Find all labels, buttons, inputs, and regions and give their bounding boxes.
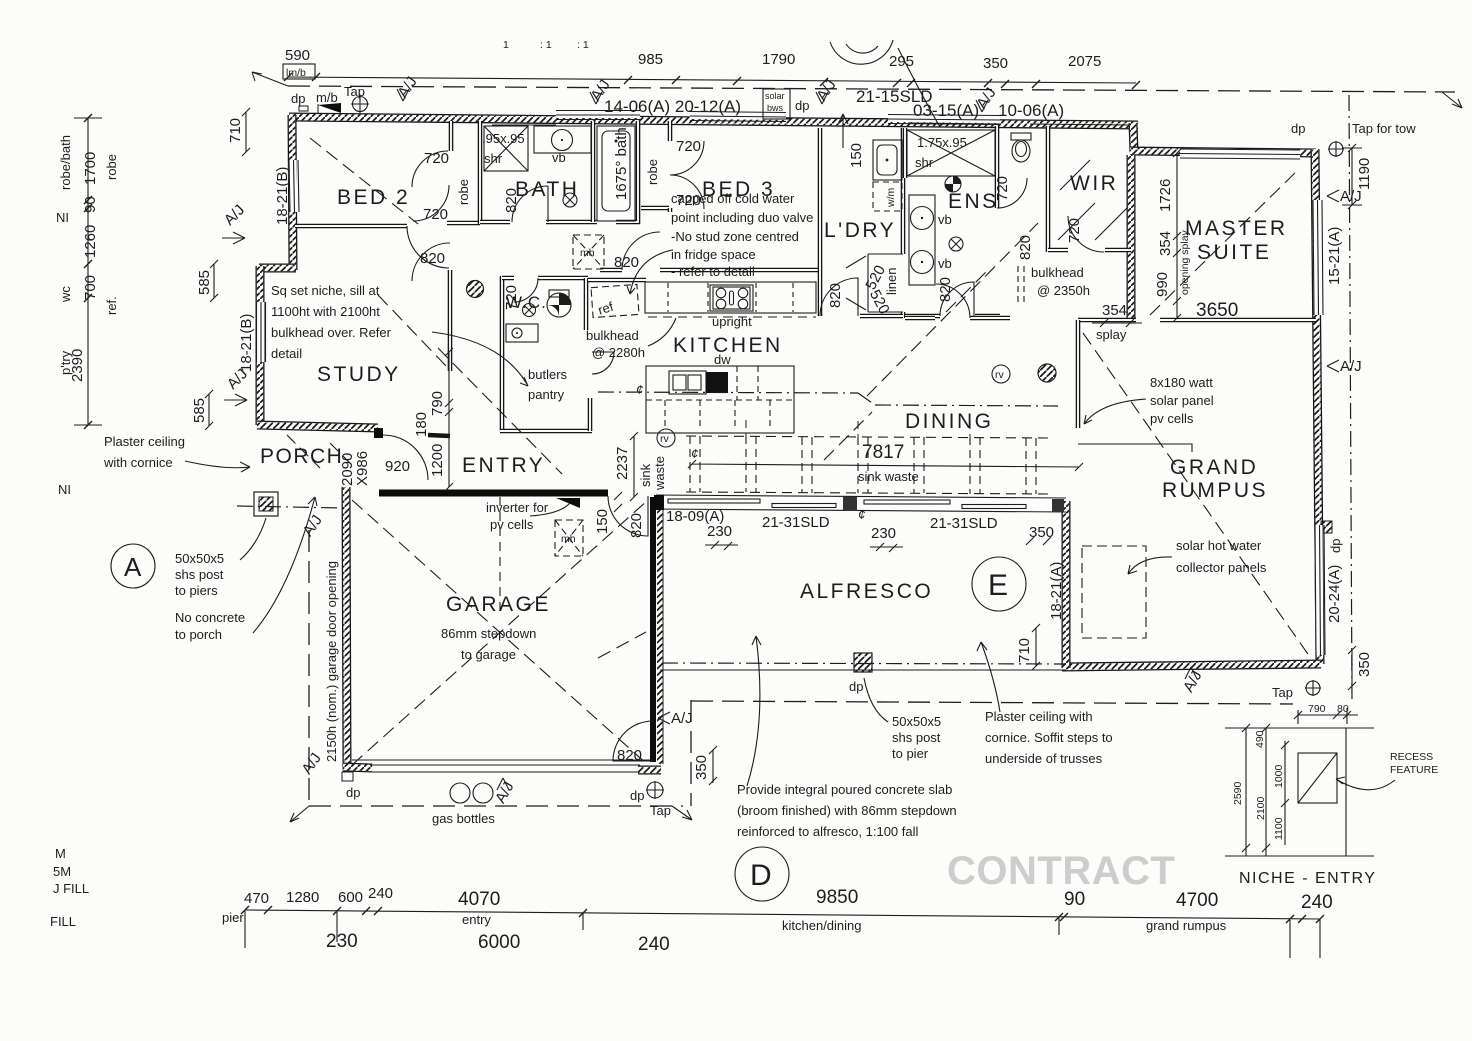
door arc: ens [940, 282, 974, 316]
svg-text:M: M [55, 846, 66, 861]
annotation: 2150h garage door opening rotated [324, 561, 339, 762]
svg-text:sink waste: sink waste [858, 469, 919, 484]
svg-text:A/J: A/J [1340, 188, 1362, 205]
svg-text:10-06(A): 10-06(A) [998, 101, 1064, 120]
dim 710 alfresco east rotated [1016, 624, 1040, 670]
w/m label rotated [885, 188, 897, 209]
A/J marker alfresco left [658, 710, 693, 727]
site boundary: left dashed vertical [308, 530, 310, 806]
mh box hall [573, 235, 604, 269]
svg-text:mh: mh [580, 247, 595, 259]
garage east wall black [653, 497, 663, 764]
A/J label alfresco bottom rotated [1180, 667, 1206, 695]
svg-text:to pier: to pier [892, 746, 929, 761]
door dim 720 wir rotated [1066, 218, 1083, 243]
niche dim 490 rotated [1254, 730, 1266, 748]
rumpus nib wall [1078, 444, 1192, 452]
svg-text:820: 820 [420, 250, 445, 267]
svg-text:A/J: A/J [221, 201, 248, 228]
interior wall: WC east [584, 278, 589, 330]
svg-text:J FILL: J FILL [53, 881, 89, 896]
svg-text:3650: 3650 [1196, 300, 1238, 321]
hall floor waste hatched [467, 281, 484, 298]
shower bath: box with X [484, 126, 528, 171]
svg-text:ΝΙ: ΝΙ [58, 482, 71, 497]
svg-text:splay: splay [1096, 327, 1127, 342]
dim 354 rotated [1157, 231, 1174, 256]
dim 985 [638, 51, 663, 68]
annotation: upright [712, 314, 752, 329]
svg-text:dp: dp [1328, 539, 1343, 553]
room label STUDY [317, 363, 401, 386]
label robe/bath rotated [58, 135, 73, 190]
svg-text:dp: dp [1291, 121, 1305, 136]
dim 350 bottom right rotated [1348, 646, 1373, 690]
door arc: linen splay doors [846, 256, 866, 310]
door dim 820 laundry rotated [827, 283, 844, 308]
A/J marker left lower [224, 365, 251, 406]
solar bws box [763, 89, 790, 119]
leader: capped off to fridge [627, 250, 672, 294]
dim 295 [889, 53, 914, 70]
svg-text:bulkhead over. Refer: bulkhead over. Refer [271, 325, 392, 340]
svg-text:585: 585 [196, 270, 213, 295]
svg-text:- refer to detail: - refer to detail [671, 264, 755, 279]
svg-text:920: 920 [385, 458, 410, 475]
exterior wall: study/porch south [257, 425, 378, 428]
svg-text:sink: sink [638, 463, 653, 487]
exterior wall: study step [259, 264, 296, 273]
svg-text:upright: upright [712, 314, 752, 329]
svg-text:18-21(B): 18-21(B) [238, 314, 255, 372]
dim 354 splay master sw [1092, 302, 1142, 342]
niche dim ticks [1242, 724, 1289, 852]
door dim 820 bath rotated [503, 188, 520, 213]
dim 3650 [1196, 300, 1238, 321]
vb label bath [552, 150, 566, 165]
svg-text:to garage: to garage [461, 647, 516, 662]
svg-text:-No stud zone centred: -No stud zone centred [671, 229, 799, 244]
pergola dashed grid horizontals [686, 436, 1048, 494]
top faint pencil ticks [503, 39, 589, 51]
dp box at garage sw [342, 772, 353, 781]
svg-text:720: 720 [676, 192, 701, 209]
room label ENTRY [462, 454, 545, 477]
interior wall: bed3 east / laundry west [818, 128, 823, 316]
svg-text:gas bottles: gas bottles [432, 811, 495, 826]
robe label bed2 rotated [456, 179, 471, 205]
svg-text:350: 350 [1356, 652, 1373, 677]
window: study west wall [257, 302, 266, 362]
svg-text:dp: dp [291, 91, 305, 106]
door arc: bed3 robe [670, 141, 704, 209]
bath floor waste [563, 193, 577, 207]
interior wall: pantry east / kitchen [588, 398, 593, 431]
room label GARAGE [446, 593, 551, 616]
dim 990 rotated [1154, 272, 1171, 297]
alfresco post (50x50 shs) [854, 653, 872, 672]
room label KITCHEN [673, 334, 783, 357]
svg-text:8x180 watt: 8x180 watt [1150, 375, 1213, 390]
svg-text:1700: 1700 [82, 152, 99, 185]
garage cross diagonal 2 [352, 500, 648, 765]
svg-text:990: 990 [1154, 272, 1171, 297]
door arc: master [936, 284, 970, 318]
leader: provide integral to alfresco [747, 636, 761, 786]
interior wall: WC north [502, 276, 588, 281]
svg-text:ENS: ENS [948, 190, 999, 213]
A/J master top right [1343, 130, 1355, 142]
kitchen island [646, 366, 794, 433]
garage door: thin double line in south wall [352, 760, 652, 772]
svg-text:pv cells: pv cells [1150, 411, 1194, 426]
annotation: butlers pantry [528, 367, 568, 402]
svg-text:RECESS: RECESS [1390, 751, 1433, 763]
kitchen hotplate [710, 285, 753, 311]
A/J right wall lower [1327, 358, 1362, 375]
svg-text:21-31SLD: 21-31SLD [930, 515, 998, 532]
svg-text:150: 150 [848, 143, 865, 168]
interior wall: bath east / bed3 west [591, 121, 596, 222]
label 18-21(A) alfresco rotated [1048, 562, 1065, 620]
svg-text:4700: 4700 [1176, 890, 1218, 911]
svg-text:dp: dp [849, 679, 863, 694]
left vertical dimension line [74, 114, 102, 429]
svg-text:2237: 2237 [614, 447, 631, 480]
hall floor waste hatched (master) [1038, 364, 1056, 382]
svg-text:dw: dw [714, 352, 731, 367]
garage note 86mm stepdown / to garage [441, 626, 536, 662]
diagonal dashes near garage se [598, 632, 646, 658]
boundary corner arrow bottom-left [290, 806, 309, 822]
dim 350 top [983, 55, 1008, 72]
dim 90 [1064, 889, 1085, 910]
svg-text:1280: 1280 [286, 889, 319, 906]
svg-text:2075: 2075 [1068, 53, 1101, 70]
svg-text:1000: 1000 [1273, 764, 1285, 788]
door arc: garage rear to alfresco [613, 721, 653, 761]
WC floor waste [523, 304, 536, 317]
svg-text:rv: rv [660, 433, 669, 445]
room label BATH [515, 178, 579, 201]
svg-text:.95x.95: .95x.95 [482, 131, 525, 146]
window: master east wall 15-21(A) [1313, 200, 1323, 315]
tap symbol garage se [646, 781, 664, 799]
svg-text:ENTRY: ENTRY [462, 454, 545, 477]
svg-text:X986: X986 [354, 451, 371, 486]
svg-text:9850: 9850 [816, 887, 858, 908]
window code 14-06(A) 20-12(A) [604, 97, 741, 116]
dim 6000 below [478, 932, 520, 953]
robe label bed3 rotated [645, 159, 660, 185]
top dp m/b labels [291, 84, 365, 106]
svg-text:to piers: to piers [175, 583, 218, 598]
svg-text:vb: vb [938, 212, 952, 227]
svg-text:Plaster ceiling: Plaster ceiling [104, 434, 185, 449]
svg-text:240: 240 [1301, 892, 1333, 913]
window code 21-15SLD [856, 87, 933, 106]
centreline marks [636, 382, 865, 522]
svg-text:790: 790 [1308, 703, 1326, 715]
alfresco south dash-dot roof line [662, 663, 1066, 664]
svg-text:350: 350 [983, 55, 1008, 72]
door dim 820 bed2 [420, 250, 445, 267]
annotation: solar hot water collector panels [1176, 538, 1267, 575]
svg-text:dp: dp [795, 98, 809, 113]
svg-text:240: 240 [368, 885, 393, 902]
svg-text:kitchen/dining: kitchen/dining [782, 918, 862, 933]
mh box entry [555, 520, 583, 556]
svg-text:720: 720 [994, 176, 1011, 201]
ceiling diagonal dashed: ens hall [946, 270, 988, 312]
door arc: bed2 entry [407, 226, 449, 268]
svg-text:L'DRY: L'DRY [824, 219, 896, 242]
svg-text:inverter for: inverter for [486, 500, 549, 515]
annotation: dw [714, 352, 731, 367]
niche detail: bottom line [1225, 855, 1374, 857]
annotation: bulkhead 2280h [586, 318, 676, 360]
svg-text:180: 180 [413, 412, 430, 437]
dim 585 upper [196, 260, 218, 302]
dim 2090x986 rotated [339, 451, 371, 486]
dim 240 bottom right [1301, 892, 1333, 913]
bulkhead dashed pair at hall [1018, 266, 1024, 305]
svg-text:point including duo valve: point including duo valve [671, 210, 813, 225]
svg-text:FEATURE: FEATURE [1390, 764, 1438, 776]
Tap label garage se [650, 803, 671, 818]
svg-text:50x50x5: 50x50x5 [175, 551, 224, 566]
ceiling diagonal dashed: master suite [1150, 168, 1300, 315]
wir shelves diagonal marks [1058, 160, 1128, 240]
svg-text:1100ht with 2100ht: 1100ht with 2100ht [271, 304, 380, 319]
dim 240 a [368, 885, 393, 902]
niche top dims 790 80 [1294, 703, 1358, 724]
svg-text:dp: dp [346, 785, 360, 800]
section circle A [111, 544, 155, 588]
tap symbol rumpus se [1305, 680, 1321, 696]
dim 585 lower [191, 390, 213, 430]
svg-text:470: 470 [244, 890, 269, 907]
svg-text:86mm stepdown: 86mm stepdown [441, 626, 536, 641]
svg-text:1190: 1190 [1356, 158, 1373, 190]
solar hot water dashed box [1082, 546, 1146, 638]
svg-text:2100: 2100 [1255, 796, 1267, 820]
door arc: wc2 [997, 178, 1027, 208]
gas bottles [450, 783, 493, 803]
annotation: capped off cold water [671, 191, 813, 279]
laundry dim 150 rotated [848, 143, 865, 168]
room label BED 2 [337, 186, 410, 209]
door dim 720 bed3 robe 2 [676, 192, 701, 209]
svg-text:¢: ¢ [636, 382, 643, 397]
label 15-21(A) rotated [1326, 227, 1343, 285]
svg-text:720: 720 [1066, 218, 1083, 243]
dim 180 rotated [413, 412, 430, 437]
garage cross diagonal 1 [352, 500, 648, 765]
svg-text:700: 700 [82, 275, 99, 300]
svg-text:FILL: FILL [50, 914, 76, 929]
interior wall: wc2 / wir divider [1046, 126, 1051, 252]
svg-text:entry: entry [462, 912, 491, 927]
svg-text:14-06(A) 20-12(A): 14-06(A) 20-12(A) [604, 97, 741, 116]
bath 1675 rotated [613, 127, 630, 200]
svg-text:w/m: w/m [885, 188, 897, 209]
niche dim 1100 rotated [1273, 817, 1285, 840]
section circle E [972, 557, 1026, 611]
leader: no concrete arrow to porch [253, 497, 317, 633]
svg-text:cornice. Soffit steps to: cornice. Soffit steps to [985, 730, 1113, 745]
svg-text:Plaster ceiling with: Plaster ceiling with [985, 709, 1093, 724]
porch pier [254, 492, 278, 516]
door arc: bed3 entry [622, 232, 660, 270]
svg-text:vb: vb [552, 150, 566, 165]
svg-text:D: D [750, 859, 772, 892]
ens vb 1 [911, 207, 934, 230]
annotation: plaster ceiling right [985, 709, 1113, 766]
dp label garage se [630, 788, 644, 803]
dim 920 porch door [385, 458, 410, 475]
svg-text:DINING: DINING [905, 410, 994, 433]
svg-text:ref.: ref. [104, 296, 119, 315]
annotation: 50x50x5 shs post to piers left [175, 551, 224, 598]
svg-text:720: 720 [424, 150, 449, 167]
window code 10-06(A) [998, 101, 1064, 120]
svg-text:pantry: pantry [528, 387, 565, 402]
svg-text:shr: shr [915, 155, 934, 170]
svg-text:collector panels: collector panels [1176, 560, 1267, 575]
ref dashed box [591, 284, 639, 317]
svg-text:820: 820 [617, 747, 642, 764]
room label L'DRY [824, 219, 896, 242]
svg-text:720: 720 [503, 285, 520, 310]
svg-text:1260: 1260 [82, 225, 99, 258]
interior wall: pantry south [500, 429, 592, 434]
door dim 720 bed3 robe [676, 138, 701, 155]
svg-text:590: 590 [285, 47, 310, 64]
section circle D [735, 847, 789, 901]
alfresco north sliding door wall [654, 495, 1066, 512]
svg-text:grand rumpus: grand rumpus [1146, 918, 1227, 933]
svg-text:BATH: BATH [515, 178, 579, 201]
interior wall: laundry east [901, 128, 906, 318]
exterior wall: garage south-west stub [343, 767, 372, 768]
exterior wall: garage west [346, 487, 347, 770]
svg-text:linen: linen [884, 268, 899, 295]
svg-text:robe: robe [645, 159, 660, 185]
porch door jamb black [374, 428, 383, 438]
rv circle kitchen [657, 429, 675, 447]
interior wall: pantry west [500, 345, 505, 431]
door arc: hall/bed2 [412, 243, 450, 281]
interior wall: bath tub east wall [616, 121, 638, 222]
interior wall: ens / wc divider [995, 126, 1000, 208]
niche dim 2100 rotated [1255, 796, 1267, 820]
svg-text:820: 820 [503, 188, 520, 213]
porch dash-dot line [237, 506, 343, 508]
svg-text:1726: 1726 [1157, 179, 1174, 212]
dim 150 garage stub rotated [594, 492, 622, 534]
svg-text:4070: 4070 [458, 889, 500, 910]
svg-text:Sq set niche, sill at: Sq set niche, sill at [271, 283, 380, 298]
shower label .95x.95 shr [482, 131, 525, 166]
annotation: bulkhead 2350h [1031, 265, 1090, 298]
svg-text:@ 2280h: @ 2280h [592, 345, 645, 360]
ens shower [907, 130, 995, 176]
svg-text:STUDY: STUDY [317, 363, 401, 386]
svg-text:5M: 5M [53, 864, 71, 879]
leader: solar hot water to box [1128, 557, 1172, 574]
label robe rotated [104, 154, 119, 180]
interior wall: ens south [905, 314, 1000, 319]
island sink [669, 371, 706, 394]
interior wall: bed3 robe sill [641, 206, 669, 211]
svg-text:18-21(B): 18-21(B) [274, 167, 291, 225]
inverter black arrow [530, 498, 580, 516]
ens floor waste [949, 237, 963, 251]
dim 230 right [870, 525, 903, 552]
interior wall: bed2 robe east upper [449, 121, 454, 151]
svg-text:A: A [124, 552, 142, 582]
dim 230 below [326, 931, 358, 952]
svg-text:MASTER: MASTER [1185, 217, 1288, 240]
dim 350 sliding right [1026, 524, 1054, 545]
svg-text:shs post: shs post [892, 730, 941, 745]
dim 230 left [705, 523, 738, 550]
dim 1726 rotated [1157, 179, 1174, 212]
ens wall waste black-white circle [945, 176, 961, 192]
section circle B partial top [830, 40, 893, 64]
label opening splay rotated [1179, 229, 1191, 295]
dim 1790 [762, 51, 795, 68]
svg-text:CONTRACT: CONTRACT [947, 849, 1175, 893]
label p'try rotated [58, 350, 73, 375]
svg-text:1675° bath: 1675° bath [613, 127, 630, 200]
annotation: no concrete to porch [175, 610, 245, 642]
svg-text:240: 240 [638, 934, 670, 955]
dp box at rumpus east [1321, 521, 1332, 533]
WC toilet [547, 290, 571, 317]
ceiling diagonal dashed: bed2 [310, 138, 418, 224]
kitchen bench [645, 282, 816, 317]
svg-text:p'try: p'try [58, 350, 73, 375]
svg-text:ALFRESCO: ALFRESCO [800, 580, 933, 603]
svg-text:585: 585 [191, 398, 208, 423]
TI mark upper [56, 210, 69, 225]
interior wall: rumpus west [1076, 320, 1081, 428]
exterior wall: right (master + grand rumpus) [1315, 149, 1320, 664]
annotation: 50x50x5 shs post to pier [892, 714, 941, 761]
svg-text:2590: 2590 [1232, 781, 1244, 805]
door dim 820 hall rotated [1017, 235, 1034, 260]
dim 90 rotated [82, 196, 99, 213]
lm/b boxed label [283, 64, 315, 79]
room label DINING [905, 410, 994, 433]
niche detail: inner dim line [1284, 741, 1286, 845]
sink waste rotated kitchen [638, 456, 667, 491]
svg-text:354: 354 [1157, 231, 1174, 256]
entry vertical dims 790/180/1200 [445, 348, 453, 491]
svg-text:820: 820 [937, 277, 954, 302]
interior wall: WC hall west [500, 276, 505, 345]
svg-text:A/J: A/J [298, 750, 324, 778]
svg-text:350: 350 [693, 755, 710, 780]
tap symbol master top right [1328, 141, 1344, 157]
leader from section circle B to wall [898, 48, 940, 127]
exterior wall: alfresco/grand rumpus west [1062, 501, 1071, 668]
exterior wall: step at WIR/master corner [1133, 123, 1134, 152]
svg-text:SUITE: SUITE [1197, 241, 1271, 264]
door arc: laundry [820, 278, 858, 316]
